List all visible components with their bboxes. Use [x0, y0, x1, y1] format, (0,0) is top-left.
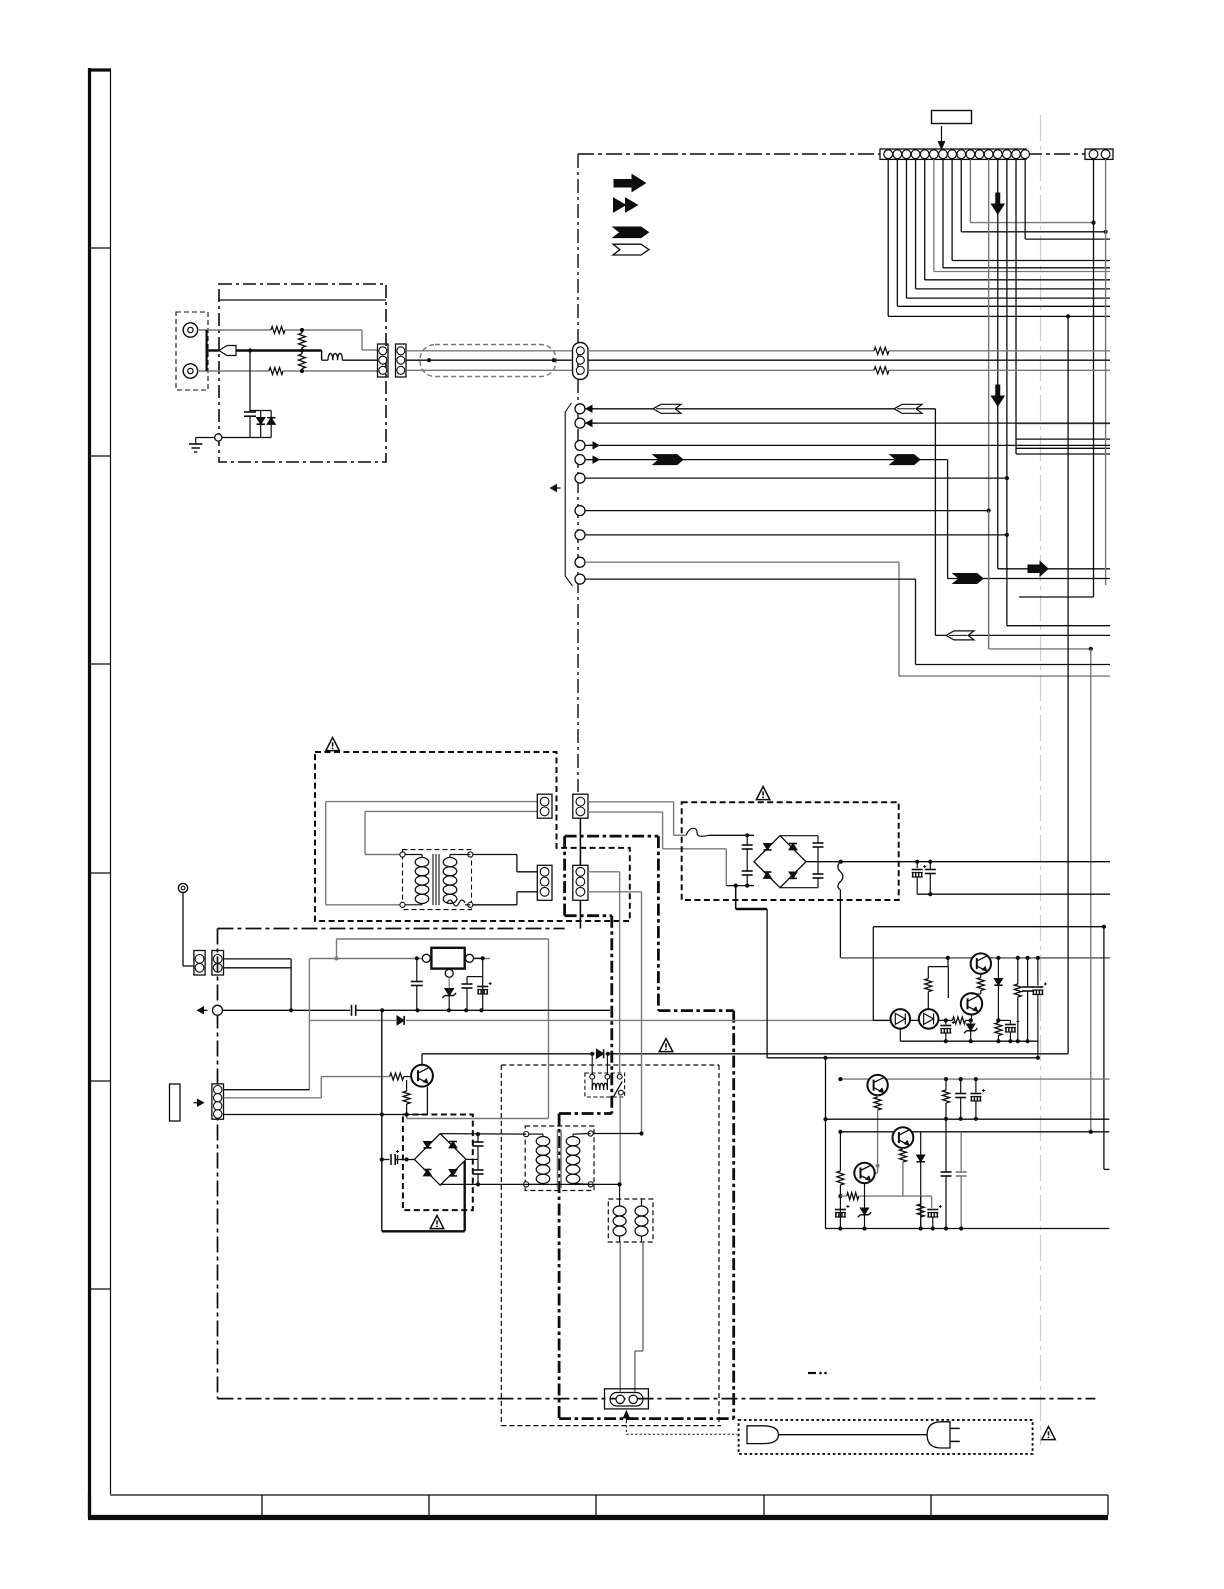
- fuse F1: [686, 828, 709, 836]
- wire q4 chain to q6 base: [877, 1166, 879, 1173]
- resistor R-pc: [953, 1017, 966, 1024]
- zener D-m2: [860, 1208, 868, 1215]
- connector pin: [575, 557, 585, 567]
- wire to ground: [196, 437, 215, 439]
- gray drop to feedback line: [308, 959, 310, 1090]
- capacitor C-m2 electrolytic: [975, 1079, 977, 1092]
- connector CN-P1b: [573, 794, 588, 818]
- diode D-m1: [920, 1132, 922, 1155]
- wire standby node: [223, 1009, 351, 1011]
- label box: [932, 111, 972, 124]
- capacitor C-ant: [249, 411, 251, 413]
- wire T2 bottom rail: [440, 1183, 619, 1185]
- wire side pin2: [586, 420, 592, 427]
- thick return path: [382, 1230, 465, 1232]
- resistor R-ant4 vertical: [299, 354, 306, 369]
- wire CN1 pin8: [951, 159, 953, 261]
- node arrow out: [198, 1007, 204, 1014]
- transistor Q4: [867, 1075, 887, 1095]
- feedback line with diode: [309, 1019, 396, 1021]
- dotted link to cord: [625, 1421, 627, 1434]
- series capacitor C-in: [382, 1159, 390, 1161]
- wire gray mid rail: [840, 1078, 1109, 1080]
- wire CN1 pin13: [997, 159, 999, 569]
- wire CN1 pin6: [933, 159, 935, 272]
- connector CN-P2b: [573, 865, 588, 900]
- wire side pin7: [585, 534, 1007, 536]
- capacitor C-m6 gray: [960, 1132, 962, 1172]
- transistor Q1: [411, 1065, 433, 1087]
- relay RY1 dashed box: [585, 1073, 625, 1097]
- power cord dotted box: [739, 1420, 1033, 1454]
- connector CN-L (4 pin): [212, 1084, 224, 1119]
- wire Q1 to relay line: [421, 1054, 423, 1065]
- capacitor C-line1: [746, 835, 748, 845]
- wire line-A1: [422, 1053, 595, 1055]
- fold line: [1040, 115, 1042, 1445]
- guide arrow left: [551, 485, 557, 492]
- bridge BR1 top tap capacitor: [780, 835, 818, 837]
- wire balun thick: [236, 349, 322, 351]
- wire x1103 drop: [1103, 927, 1105, 1170]
- transformer T2 primary coil: [529, 1133, 543, 1135]
- relay coil: [590, 1074, 595, 1079]
- connector CN-G1: [194, 951, 205, 976]
- resistor R-ant1: [271, 327, 285, 334]
- balun spade lead: [219, 346, 236, 356]
- wire Q1 collector: [426, 1087, 428, 1115]
- jack link vertical: [206, 330, 208, 371]
- wire riser x1068: [1067, 316, 1069, 1053]
- wire side pin1: [586, 405, 592, 412]
- gray supply rail: [309, 958, 490, 960]
- wire CN1 pin2: [896, 159, 898, 306]
- wire PC row: [873, 1019, 890, 1021]
- primary side dashed box: [501, 1064, 719, 1066]
- antenna jack J2: [183, 364, 197, 378]
- warning triangle line-A: [659, 1039, 673, 1052]
- connector bracket: [565, 403, 572, 586]
- photocoupler PC1: [891, 1009, 911, 1029]
- flow arrow on pin13 horizontal: [1028, 562, 1048, 577]
- capacitor C-reg1: [416, 958, 418, 981]
- cable shield dashed: [420, 345, 556, 377]
- wire CN1 pin12: [988, 159, 990, 649]
- wire side pin4: [593, 456, 599, 463]
- capacitor C-m4 electrolytic: [931, 1196, 933, 1208]
- capacitor C-br2: [466, 1158, 478, 1160]
- capacitor C-out2: [929, 862, 931, 870]
- connector pin: [575, 418, 585, 428]
- junction pin12 riser: [1089, 647, 1093, 651]
- transformer T2 core: [557, 1130, 559, 1188]
- flow arrow on pin13 wire upper: [991, 193, 1004, 214]
- wire CN-P2b pin1 down: [588, 871, 620, 873]
- wire AC live: [588, 801, 674, 803]
- transistor Q2: [971, 953, 991, 973]
- wire side pin6: [585, 510, 989, 512]
- wire side pin5: [585, 477, 1007, 479]
- cord plug: [927, 1422, 950, 1448]
- capacitor C-reg3 electrolytic: [477, 986, 488, 988]
- transformer T1 primary coil: [405, 854, 422, 856]
- wire BR2 top out: [440, 1133, 526, 1136]
- plug prongs: [950, 1427, 960, 1429]
- capacitor C-reg2: [466, 977, 468, 984]
- capacitor C-m1: [960, 1079, 962, 1093]
- capacitor C-m3 electrolytic: [835, 1209, 846, 1211]
- wire coax A to right: [588, 350, 874, 352]
- base network R-b: [947, 958, 949, 967]
- legend chevron filled: [613, 227, 649, 238]
- wire side pin9: [585, 578, 916, 580]
- resistor R-q2: [980, 974, 982, 978]
- bridge BR2 diamond: [414, 1134, 466, 1186]
- inductor L-ant: [328, 353, 342, 360]
- dash-dot section boundary vertical: [577, 154, 579, 792]
- transformer T3 dashed box: [608, 1199, 653, 1242]
- wire CN2 pin2: [1105, 159, 1107, 585]
- bridge BR1 bottom tap capacitor: [780, 887, 818, 889]
- connector pin: [575, 506, 585, 516]
- transformer T1 secondary coil: [443, 858, 457, 867]
- connector CN-T1: [378, 344, 389, 377]
- photocoupler PC2: [919, 1009, 939, 1029]
- resistor R-c1: [1017, 958, 1019, 984]
- wire CN1 pin5: [924, 159, 926, 280]
- page frame left ruler column: [88, 68, 91, 1517]
- cord female end: [747, 1426, 778, 1444]
- resistor R-m2: [837, 1171, 844, 1185]
- ground: [189, 443, 202, 445]
- wire side pin3: [593, 442, 599, 449]
- wire CN1 pin4: [915, 159, 917, 289]
- node circle: [213, 1005, 223, 1015]
- wire T1 secondary bottom: [473, 904, 517, 906]
- bridge rectifier BR1 dashed box: [682, 802, 899, 900]
- transformer T2 secondary coil: [566, 1137, 580, 1146]
- control box outline: [873, 926, 1104, 928]
- wire jack J1 row: [198, 329, 271, 331]
- warning triangle cord: [1042, 1427, 1056, 1440]
- page frame bottom title bar: [110, 1494, 1108, 1496]
- connector CN-P2a: [537, 865, 552, 900]
- connector pin: [575, 404, 585, 414]
- ground node: [215, 434, 222, 441]
- warning triangle DB1: [326, 738, 340, 751]
- wire W1 gray loop: [326, 801, 538, 803]
- wire jack J2 row: [198, 370, 269, 372]
- wire AC neutral: [588, 811, 663, 813]
- transformer T2 terminals: [524, 1132, 529, 1137]
- wire q2q3: [972, 993, 981, 995]
- riser wire right: [1090, 649, 1092, 1132]
- wire CN-L pin2 gray: [224, 1097, 322, 1099]
- bottom rail cluster: [900, 1040, 1038, 1042]
- resistor R-emitter: [406, 1080, 408, 1091]
- wire CN1 pin10: [969, 159, 971, 223]
- tuner box inner line: [219, 299, 386, 301]
- rail top small: [250, 410, 271, 412]
- diode D-relay: [596, 1049, 603, 1058]
- connector pin: [575, 530, 585, 540]
- wire T3 to AC inlet right: [642, 1241, 644, 1243]
- wire T1 secondary top: [473, 854, 517, 856]
- wire earth lead: [182, 893, 184, 966]
- wire CN1 pin7: [942, 159, 944, 268]
- dash mark legend small: [808, 1372, 816, 1374]
- tuner shield box dash-dot: [219, 284, 386, 462]
- wire CN-L pin1: [224, 1089, 310, 1091]
- resistor R-m3 horizontal: [847, 1193, 859, 1200]
- thermistor squiggle: [838, 862, 843, 890]
- antenna jack J1: [183, 323, 197, 337]
- transformer T3 right coil: [641, 1199, 643, 1206]
- capacitor C-e1 electrolytic: [1009, 1020, 1011, 1023]
- arrow into connector CN1: [941, 126, 943, 144]
- diode D-ant1: [260, 411, 262, 418]
- transformer T2 dashed box: [525, 1126, 594, 1191]
- legend arrow double triangle: [614, 198, 626, 212]
- transistor Q3: [961, 993, 982, 1014]
- connector CN2: [1085, 149, 1113, 159]
- vertical x840 lower: [839, 1132, 841, 1171]
- gray secondary rail: [840, 957, 1110, 959]
- dashed enclosure DB1: [315, 752, 630, 921]
- wire riser x381: [381, 1010, 383, 1231]
- bridge BR2 diodes: [424, 1142, 432, 1148]
- connector CN-P1a: [537, 794, 552, 818]
- bridge BR1 diodes: [764, 844, 772, 850]
- wire CN1 pin15: [1015, 159, 1017, 454]
- capacitor C-out1 electrolytic: [916, 862, 918, 868]
- connector CN-T3 oval: [573, 343, 589, 380]
- wire q3 emitter: [971, 1015, 973, 1021]
- transformer T1 terminals: [400, 852, 405, 857]
- wire CN1 pin14: [1006, 159, 1008, 626]
- resistor R-m4: [920, 1196, 922, 1204]
- resistor R-q5: [902, 1148, 904, 1149]
- wire relay coil taps: [591, 1054, 593, 1075]
- wire CN1 pin3: [905, 159, 907, 298]
- diode D-ant2: [270, 411, 272, 418]
- transformer T1 core: [432, 854, 434, 905]
- wire filter drop: [249, 351, 251, 411]
- warning triangle BR2: [430, 1216, 444, 1229]
- wire W2 gray: [365, 810, 537, 812]
- earth terminal: [178, 883, 187, 892]
- connector CN-T2: [396, 344, 407, 377]
- wire relay to transformer: [619, 1095, 621, 1184]
- regulator IC1: [431, 948, 464, 969]
- wire CN-P2b pin3 down: [588, 891, 642, 893]
- guide arrow right: [198, 1099, 204, 1106]
- bridge BR1 diamond: [754, 836, 806, 888]
- wire bridge negative return A2: [734, 884, 738, 888]
- heavy shield inner box: [565, 835, 659, 838]
- wire CN1 pin9: [960, 159, 962, 232]
- link CN-P1b to CN-P2b: [579, 818, 581, 865]
- legend arrow solid: [614, 175, 646, 192]
- wire CN1 pin16: [1024, 159, 1026, 239]
- zener D-reg: [448, 977, 450, 988]
- wire left edge vertical: [825, 1058, 827, 1229]
- chassis shield box dash-dot: [218, 928, 565, 930]
- wire rail 1119: [826, 1118, 1110, 1120]
- wire BR1 output rail: [806, 861, 1110, 863]
- junction CN1 pin9 / CN2: [1104, 230, 1108, 234]
- transistor Q6: [854, 1163, 874, 1183]
- wire bus pair: [224, 958, 292, 960]
- wire side pin8: [585, 561, 899, 563]
- resistor R-m1: [945, 1079, 947, 1090]
- bridge BR2 dashed box: [403, 1115, 473, 1211]
- zener D-z1: [970, 1020, 972, 1024]
- resistor R-q4: [877, 1095, 879, 1097]
- wire T2 secondary top: [593, 1133, 641, 1135]
- junction CN1 pin10 / CN2: [1091, 221, 1095, 225]
- rail bottom small: [222, 437, 271, 439]
- capacitor C-pc electrolytic: [945, 1020, 947, 1024]
- warning triangle BR1: [756, 787, 770, 800]
- diode D-c1: [997, 958, 999, 979]
- transformer T3 left coil: [619, 1199, 621, 1206]
- wire T3 to AC inlet left: [619, 1184, 621, 1199]
- wire BR1 return rail: [917, 893, 1110, 895]
- diode D-fb: [397, 1016, 404, 1025]
- capacitor C-line2: [746, 860, 748, 871]
- cord wire: [778, 1434, 927, 1436]
- transformer T1 dashed box: [403, 850, 472, 910]
- flow arrow on pin13 wire lower: [991, 385, 1004, 406]
- bus lines to right edge: [1016, 423, 1110, 425]
- AC inlet connector: [605, 1389, 649, 1409]
- wire CN-L pin4: [224, 1114, 428, 1116]
- connector pin: [575, 574, 585, 584]
- capacitor C-c1: [1027, 958, 1029, 987]
- capacitor C-m5: [945, 1119, 947, 1172]
- cable wires: [406, 350, 573, 352]
- wire CN2 pin1: [1093, 159, 1095, 597]
- relay contact: [617, 1074, 622, 1079]
- arrow into inlet: [623, 1411, 629, 1418]
- connector pin: [575, 473, 585, 483]
- resistor R-e1: [997, 1020, 999, 1022]
- wire CN1 pin1: [887, 159, 889, 316]
- wire thermistor down: [839, 890, 841, 958]
- capacitor C-br1: [477, 1134, 479, 1142]
- transistor Q5: [893, 1127, 914, 1148]
- wire reg right branch: [474, 957, 483, 959]
- bottom rail main: [826, 1228, 1110, 1230]
- wire coax mid to right: [588, 359, 1110, 361]
- resistor R-ant2: [269, 368, 283, 375]
- connector CN1: [880, 149, 1026, 159]
- wire coax B to right: [588, 369, 874, 371]
- wire rail 1132: [840, 1131, 1109, 1133]
- resistor R-base: [390, 1073, 404, 1080]
- resistor R-ant3 vertical: [299, 333, 306, 348]
- connector pin: [575, 440, 585, 450]
- capacitor C-c2 electrolytic: [1037, 958, 1039, 986]
- connector CN-G2: [212, 951, 224, 976]
- label box small: [170, 1084, 181, 1121]
- gray feedback loop: [336, 939, 338, 959]
- connector pin: [575, 455, 585, 465]
- antenna jacks dashed box: [176, 312, 208, 390]
- legend chevron outline: [613, 244, 649, 255]
- thermal fuse squiggle: [447, 900, 465, 906]
- wire q6 emitter: [864, 1183, 866, 1208]
- dash-dot section boundary top: [578, 153, 880, 155]
- capacitor C-couple: [351, 1005, 353, 1016]
